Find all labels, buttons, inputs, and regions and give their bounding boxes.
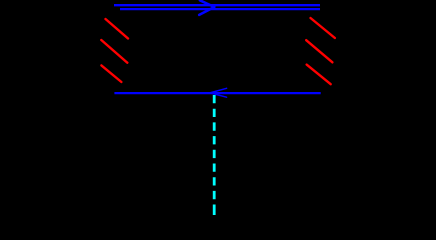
arrow on top line (pointing right) [199,0,214,15]
left hatch 1 [106,19,129,39]
dashed scalar line: last dash (cut by image edge) [213,205,216,216]
left hatch 3 [101,65,121,82]
arrow on middle line (pointing left) [210,88,227,97]
wire: top double line upper stroke [114,4,320,6]
right hatch 2 [306,40,332,62]
left hatch 2 [101,40,127,63]
wire: top double line lower stroke [120,8,320,10]
right hatch 1 [311,18,335,38]
dashed scalar line (cyan, vertical) [213,95,216,200]
wire: middle line [114,92,320,94]
right hatch 3 [307,65,331,85]
